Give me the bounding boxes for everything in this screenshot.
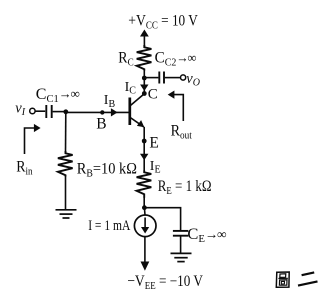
terminal vI xyxy=(30,108,35,113)
resistance Rin arrow xyxy=(25,124,41,154)
capacitor CE xyxy=(173,231,188,236)
current source I xyxy=(134,215,156,237)
wire vI junction to base xyxy=(66,111,129,113)
svg-text:B: B xyxy=(96,116,106,133)
caption glyph 圖 xyxy=(276,272,289,287)
wire CE to ground xyxy=(180,236,182,253)
resistor RE xyxy=(137,171,152,198)
caption glyph 二 xyxy=(298,272,318,285)
svg-text:E: E xyxy=(149,135,158,152)
wire junction down to RB xyxy=(65,112,67,153)
svg-text:+VCC = 10 V: +VCC = 10 V xyxy=(128,13,198,32)
node on base wire (IB dot) xyxy=(100,110,104,114)
transistor Q1 collector lead xyxy=(130,94,144,106)
svg-text:C: C xyxy=(148,86,158,102)
wire emitter down to node E xyxy=(143,127,145,141)
wire node to collector (IC segment) xyxy=(143,78,145,94)
node base junction (dot) xyxy=(63,109,68,114)
svg-text:I = 1 mA: I = 1 mA xyxy=(88,216,130,233)
node vO tap (junction dot) xyxy=(142,76,147,81)
wire vI to CC1 xyxy=(35,110,45,112)
current IC arrowhead xyxy=(140,85,148,92)
resistor RB xyxy=(58,151,73,177)
transistor Q1 base bar xyxy=(128,98,131,126)
wire RE to node xyxy=(143,198,145,208)
current IE arrowhead xyxy=(140,154,148,161)
node E (junction dot) xyxy=(142,139,147,144)
transistor Q1 emitter lead with arrow xyxy=(130,118,144,128)
resistor RC xyxy=(137,45,152,71)
wire node to CE branch xyxy=(144,208,180,230)
svg-text:RE = 1 kΩ: RE = 1 kΩ xyxy=(158,178,212,197)
capacitor CC1 xyxy=(46,105,51,118)
terminal vO xyxy=(181,75,186,80)
wire current source to -VEE arrow xyxy=(141,237,150,271)
wire RC bottom to node xyxy=(143,70,145,78)
node C (junction dot) xyxy=(142,91,147,96)
resistance Rout arrow xyxy=(168,91,184,122)
svg-text:−VEE = −10 V: −VEE = −10 V xyxy=(127,273,203,292)
wire node to current source xyxy=(143,208,146,215)
wire node E to RE (IE segment) xyxy=(143,141,145,171)
ground (CE) xyxy=(171,253,192,261)
ground (RB) xyxy=(56,210,77,218)
wire node to CC2 xyxy=(144,77,158,79)
node emitter-bias junction (dot) xyxy=(142,205,147,210)
capacitor CC2 xyxy=(159,72,164,84)
wire RB to ground xyxy=(65,176,67,210)
svg-text:RB=10 kΩ: RB=10 kΩ xyxy=(77,161,137,180)
current IB arrowhead xyxy=(111,108,118,116)
wire CC1 to junction xyxy=(53,111,66,113)
power +VCC arrow xyxy=(140,30,149,48)
wire CC2 to vO terminal xyxy=(165,77,180,79)
